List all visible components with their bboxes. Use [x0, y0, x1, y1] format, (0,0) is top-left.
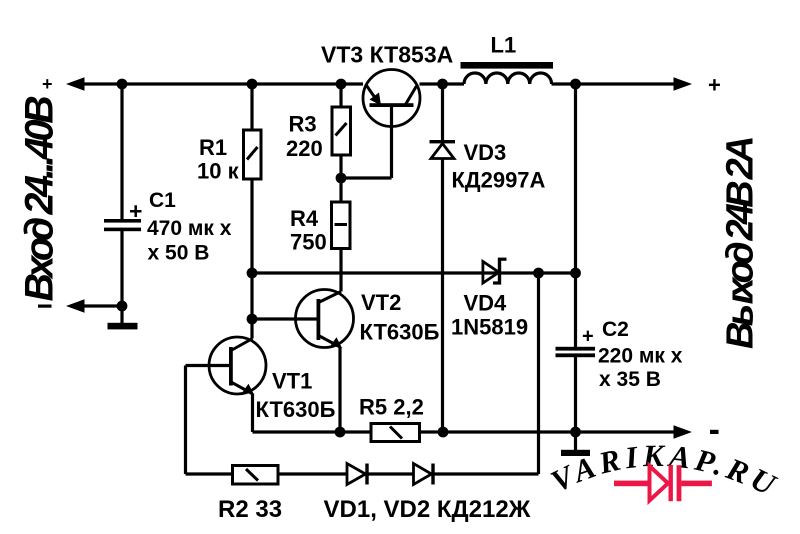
- resistor R1: [244, 84, 262, 339]
- node: R1/mid-bus junction: [247, 268, 258, 279]
- svg-text:Вход 24...40В: Вход 24...40В: [18, 96, 62, 302]
- svg-text:х 50 В: х 50 В: [148, 242, 210, 265]
- transistor VT3: [341, 70, 420, 179]
- diode VD1: [347, 464, 369, 485]
- resistor R5: [371, 424, 420, 442]
- label R3 value: [286, 112, 323, 162]
- wire: VT1 base loop: [186, 366, 233, 475]
- svg-text:х 35 В: х 35 В: [599, 368, 661, 391]
- label C2 value: [598, 318, 683, 391]
- label VD4 type: [451, 291, 528, 340]
- svg-text:220: 220: [286, 136, 323, 161]
- svg-text:C2: C2: [602, 318, 629, 341]
- diode VD3: [430, 84, 456, 432]
- svg-text:VT1: VT1: [272, 369, 312, 394]
- label R4 value: [290, 206, 327, 255]
- svg-text:R5 2,2: R5 2,2: [359, 395, 424, 420]
- node: top rail VD3 junction: [437, 79, 448, 90]
- wire: down to input ground: [120, 306, 123, 323]
- output - arrow: [674, 425, 693, 438]
- inductor L1: [461, 62, 554, 84]
- label VT1 type: [256, 369, 336, 423]
- label R1 value: [197, 135, 240, 184]
- node: VT1/VT2 emitter junction: [335, 427, 346, 438]
- wire: bottom bus left: [253, 430, 372, 433]
- svg-text:750: 750: [290, 230, 327, 255]
- svg-text:220 мк х: 220 мк х: [598, 345, 683, 368]
- transistor VT1: [186, 337, 267, 432]
- svg-text:КД2997А: КД2997А: [452, 168, 546, 193]
- wire: VT2 base: [252, 317, 317, 320]
- svg-text:+: +: [42, 74, 53, 94]
- wire: input minus to C1: [82, 304, 122, 307]
- svg-text:R1: R1: [199, 135, 227, 160]
- svg-text:Выход 24В 2А: Выход 24В 2А: [720, 138, 762, 349]
- wire: R2 to VD1: [278, 472, 347, 475]
- wire: mid bus: [252, 271, 576, 274]
- svg-text:VARIKAP.RU: VARIKAP.RU: [545, 438, 785, 504]
- capacitor C1: [104, 84, 142, 306]
- resistor R3: [332, 84, 351, 178]
- node: mid-bus/C2 junction: [570, 268, 581, 279]
- node: C2/bottom-bus junction: [570, 427, 581, 438]
- svg-text:R2 33: R2 33: [218, 496, 282, 523]
- svg-text:C1: C1: [149, 189, 176, 212]
- diode VD4 (schottky): [483, 258, 507, 285]
- node: VD3/bottom-bus junction: [438, 427, 449, 438]
- svg-text:VD1, VD2 КД212Ж: VD1, VD2 КД212Ж: [324, 496, 531, 523]
- wire: VD2 up to VD4 node: [435, 273, 539, 474]
- resistor R2: [233, 466, 279, 485]
- svg-text:R3: R3: [289, 112, 317, 137]
- svg-text:+: +: [129, 198, 142, 224]
- svg-text:+: +: [582, 326, 594, 348]
- svg-text:R4: R4: [290, 206, 319, 231]
- node: top rail R1 junction: [247, 79, 258, 90]
- capacitor C2: [556, 84, 596, 450]
- node: VD4/VD2 junction: [533, 268, 544, 279]
- label VT2 type: [360, 290, 440, 345]
- svg-text:10 к: 10 к: [197, 159, 240, 184]
- svg-text:+: +: [708, 73, 721, 98]
- svg-text:1N5819: 1N5819: [451, 315, 528, 340]
- svg-text:VD4: VD4: [464, 291, 508, 316]
- node: VT2 base junction: [247, 314, 258, 325]
- node: C1 minus junction: [117, 301, 128, 312]
- output minus sign: [710, 430, 719, 434]
- svg-text:VT2: VT2: [361, 290, 401, 315]
- svg-text:VD3: VD3: [464, 140, 507, 165]
- diode VD2: [414, 464, 435, 485]
- label C1 value: [147, 189, 232, 265]
- ground (output): [561, 450, 590, 456]
- input - arrow: [66, 299, 85, 312]
- watermark VARIKAP.RU: [545, 438, 785, 504]
- svg-text:VT3 КТ853А: VT3 КТ853А: [321, 42, 453, 68]
- svg-text:470 мк х: 470 мк х: [147, 217, 232, 240]
- node: R3/R4/VT3-base junction: [336, 173, 347, 184]
- resistor R4: [332, 178, 351, 292]
- svg-text:КТ630Б: КТ630Б: [256, 397, 336, 422]
- wire: top rail VT3-to-L1 segment: [420, 82, 465, 85]
- watermark varicap diode symbol: [614, 465, 712, 501]
- wire: top rail left segment: [82, 82, 363, 85]
- svg-text:КТ630Б: КТ630Б: [360, 320, 440, 345]
- node: top rail C1 junction: [117, 79, 128, 90]
- wire: VD1 to VD2: [369, 472, 414, 475]
- input + arrow: [66, 77, 85, 90]
- input minus sign: [38, 305, 52, 308]
- wire: bottom bus right: [420, 430, 679, 433]
- transistor VT2: [296, 290, 354, 433]
- label VD3 type: [452, 140, 546, 193]
- node: top rail C2 junction: [570, 79, 581, 90]
- svg-text:L1: L1: [491, 33, 517, 58]
- wire: top rail L1-to-output segment: [552, 82, 679, 85]
- node: top rail R3 junction: [336, 79, 347, 90]
- ground (input): [108, 323, 138, 330]
- output + arrow: [674, 77, 693, 90]
